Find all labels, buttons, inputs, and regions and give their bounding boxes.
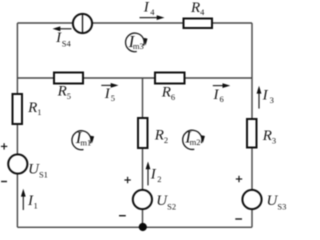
label I2 bbox=[150, 166, 162, 184]
label US3 bbox=[267, 193, 287, 212]
svg-text:R4: R4 bbox=[190, 0, 205, 17]
label R3 bbox=[262, 128, 276, 145]
minus sign US2 bbox=[119, 215, 126, 217]
label I5 bbox=[104, 86, 115, 103]
minus sign US3 bbox=[235, 218, 242, 220]
loop current Im2 bbox=[183, 128, 205, 150]
svg-text:I2: I2 bbox=[150, 166, 162, 184]
wire middle rail bbox=[17, 77, 252, 79]
label R1 bbox=[27, 100, 41, 117]
svg-text:US2: US2 bbox=[156, 193, 176, 212]
plus sign US1 bbox=[1, 143, 7, 149]
arrow I3 bbox=[257, 86, 262, 109]
voltage source US3 bbox=[242, 190, 261, 209]
svg-text:US3: US3 bbox=[267, 193, 287, 212]
resistor R6 bbox=[155, 73, 185, 84]
svg-text:IS4: IS4 bbox=[55, 30, 71, 49]
wire top rail bbox=[17, 22, 252, 24]
arrow I2 bbox=[146, 162, 151, 186]
svg-text:US1: US1 bbox=[28, 161, 48, 179]
plus sign US2 bbox=[124, 177, 130, 183]
svg-text:R3: R3 bbox=[262, 128, 276, 145]
node junction dot bbox=[139, 223, 147, 231]
loop current Im3 bbox=[126, 32, 148, 52]
voltage source US1 bbox=[8, 154, 27, 173]
label IS4 bbox=[55, 30, 71, 49]
svg-text:R6: R6 bbox=[161, 84, 175, 101]
arrow I6 bbox=[213, 83, 231, 88]
svg-text:I3: I3 bbox=[262, 88, 274, 106]
label R5 bbox=[57, 84, 71, 101]
resistor R1 bbox=[13, 94, 23, 124]
wire right branch bbox=[251, 23, 253, 227]
label I4 bbox=[143, 0, 156, 17]
svg-text:R1: R1 bbox=[27, 100, 41, 117]
label R2 bbox=[154, 128, 168, 145]
svg-text:I6: I6 bbox=[213, 87, 224, 104]
voltage source US2 bbox=[133, 190, 152, 209]
label R6 bbox=[161, 84, 175, 101]
label I6 bbox=[213, 87, 224, 104]
label I3 bbox=[262, 88, 274, 106]
svg-text:m3: m3 bbox=[133, 41, 144, 51]
label I1 bbox=[27, 193, 38, 211]
arrow I4 bbox=[140, 15, 165, 20]
loop current Im1 bbox=[72, 128, 94, 150]
current source IS4 bbox=[73, 14, 92, 33]
svg-text:I4: I4 bbox=[143, 0, 156, 17]
svg-text:I5: I5 bbox=[104, 86, 115, 103]
resistor R5 bbox=[54, 73, 83, 84]
svg-text:R5: R5 bbox=[57, 84, 71, 101]
resistor R3 bbox=[247, 119, 257, 148]
svg-text:R2: R2 bbox=[154, 128, 168, 145]
svg-text:m1: m1 bbox=[80, 137, 91, 147]
svg-text:I1: I1 bbox=[27, 193, 38, 211]
resistor R4 bbox=[184, 19, 213, 29]
wire middle branch bbox=[142, 78, 144, 227]
label R4 bbox=[190, 0, 205, 17]
label US2 bbox=[156, 193, 176, 212]
svg-text:m2: m2 bbox=[190, 137, 201, 147]
wire bottom rail bbox=[17, 226, 252, 228]
plus sign US3 bbox=[236, 176, 242, 182]
arrow I1 bbox=[21, 189, 26, 210]
wire left branch bbox=[16, 23, 18, 227]
label US1 bbox=[28, 161, 48, 179]
minus sign US1 bbox=[1, 181, 7, 183]
arrow I5 bbox=[101, 83, 118, 88]
resistor R2 bbox=[138, 118, 148, 148]
arrow IS4 bbox=[53, 26, 72, 31]
